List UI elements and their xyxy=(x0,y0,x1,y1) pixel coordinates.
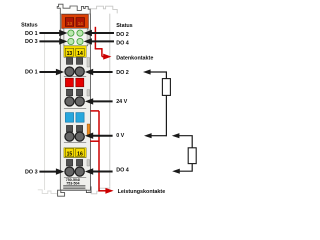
svg-text:DO 1: DO 1 xyxy=(25,70,38,76)
svg-text:16: 16 xyxy=(77,152,83,158)
external load circuit xyxy=(150,72,192,171)
svg-text:DO 4: DO 4 xyxy=(116,167,129,173)
svg-text:Status: Status xyxy=(21,22,37,28)
side hinge details on right strip xyxy=(87,30,90,45)
arrow DO4 wire xyxy=(92,171,112,173)
svg-text:DO 4: DO 4 xyxy=(116,41,129,47)
terminal number plate 16 (yellow) xyxy=(76,148,84,156)
module bottom edge xyxy=(61,186,91,192)
arrow DO3 wire xyxy=(39,171,57,173)
black label arrows, right side xyxy=(91,33,114,172)
svg-text:Datenkontakte: Datenkontakte xyxy=(116,55,153,61)
arrow DO4 status LED xyxy=(91,40,114,42)
ghost outline left (end plate edge) xyxy=(44,33,46,191)
arrow 24V wire xyxy=(92,100,112,102)
release latch (orange) xyxy=(87,124,90,136)
wire entry DO2 (circle) xyxy=(75,67,84,76)
clamp slot squares level 2 xyxy=(66,89,72,96)
load resistor R1 xyxy=(162,79,170,96)
black label arrows, left side xyxy=(39,33,60,172)
svg-text:14: 14 xyxy=(78,21,84,26)
status LED DO4 (green) xyxy=(77,38,83,44)
status LED DO1 (green) xyxy=(68,30,74,36)
arrow DO2 wire xyxy=(92,71,112,73)
wire DO2 to R1 xyxy=(150,72,167,79)
svg-text:13: 13 xyxy=(67,51,73,57)
section divider lines xyxy=(64,56,86,58)
ghost outline of adjacent module (bottom foot) xyxy=(89,187,110,194)
red arrowhead Leistungskontakte xyxy=(105,188,113,194)
red marker: Leistungskontakte pointer xyxy=(90,111,106,191)
wire entry 24V (circle) xyxy=(65,97,74,106)
svg-text:DO 3: DO 3 xyxy=(25,39,38,45)
terminal number plate 13 (crimson) xyxy=(65,18,74,27)
status LED DO2 (green) xyxy=(77,30,83,36)
arrowhead DO1 wire xyxy=(56,69,64,75)
svg-text:DO 2: DO 2 xyxy=(116,70,129,76)
LED panel xyxy=(64,28,88,46)
wire R1 to 0V xyxy=(165,95,167,136)
arrowhead DO1 status LED xyxy=(59,30,67,36)
arrowhead DO2 branch xyxy=(143,69,151,74)
status LED DO3 (green) xyxy=(68,38,74,44)
svg-text:0 V: 0 V xyxy=(116,133,124,139)
terminal number plate 13 (yellow) xyxy=(65,48,73,56)
arrowhead 0V branch a xyxy=(144,133,152,138)
wire R2 to DO4 xyxy=(179,164,192,172)
arrow DO2 status LED xyxy=(91,32,114,34)
svg-text:24 V: 24 V xyxy=(116,99,127,105)
svg-text:Leistungskontakte: Leistungskontakte xyxy=(118,189,166,195)
terminal number plate 14 (crimson) xyxy=(76,18,85,27)
wire entry DO1 (circle) xyxy=(65,67,74,76)
arrowhead 24V wire xyxy=(85,98,93,104)
arrowhead DO2 wire xyxy=(85,69,93,75)
clamp slot squares level 3 xyxy=(66,125,72,132)
terminal label strip (yellow) 15/16 xyxy=(64,148,86,158)
wire entry 0V (circle) xyxy=(65,132,74,141)
approval marks hatch block xyxy=(63,185,85,188)
wire entry 0V b (circle) xyxy=(75,132,84,141)
coding plates (red) level 2 xyxy=(65,78,73,87)
svg-text:14: 14 xyxy=(77,51,83,57)
clamp slot squares level 1 xyxy=(66,58,72,65)
arrowhead 0V branch b xyxy=(172,133,180,138)
ghost outline left (bottom rail foot) xyxy=(38,190,57,194)
terminal label strip (yellow) 13/14 xyxy=(64,46,86,57)
arrow DO1 status LED xyxy=(39,32,60,34)
arrow DO1 wire xyxy=(39,71,57,73)
terminal number plate 15 (yellow) xyxy=(65,148,73,156)
module bottom profile (left foot) xyxy=(58,190,65,196)
terminal number plate 14 (yellow) xyxy=(76,48,84,56)
arrowhead DO4 wire xyxy=(85,168,93,174)
svg-text:753-504: 753-504 xyxy=(66,181,79,185)
svg-text:DO 2: DO 2 xyxy=(116,32,129,38)
arrowhead DO4 status LED xyxy=(84,38,92,44)
svg-text:DO 1: DO 1 xyxy=(25,31,38,37)
svg-text:Status: Status xyxy=(116,23,132,29)
clamp slot squares level 4 xyxy=(66,159,72,166)
svg-text:13: 13 xyxy=(67,21,73,26)
wire entry DO3 (circle) xyxy=(65,167,74,176)
arrow 0V wire xyxy=(92,135,112,137)
wire 0V to R2 xyxy=(179,136,193,148)
module housing body U1 (750-504) xyxy=(60,14,90,190)
svg-text:DO 3: DO 3 xyxy=(25,169,38,175)
arrowhead DO3 wire xyxy=(56,168,64,174)
wire entry DO4 (circle) xyxy=(75,167,84,176)
arrowhead 0V wire xyxy=(85,133,93,139)
arrowhead DO4 branch xyxy=(172,169,180,174)
wire entry 24V b (circle) xyxy=(75,97,84,106)
marking block (orange) at module top xyxy=(62,15,89,29)
ghost outline of adjacent module (right edge) xyxy=(109,14,111,187)
module top mounting profile xyxy=(57,4,90,14)
wire 0V node xyxy=(151,135,167,137)
ghost outline of adjacent module (top profile) xyxy=(90,6,117,13)
red marker: Datenkontakte pointer xyxy=(95,27,105,57)
red arrowhead Datenkontakte xyxy=(103,54,111,60)
arrowhead DO3 status LED xyxy=(59,38,67,44)
svg-text:15: 15 xyxy=(67,152,73,158)
load resistor R2 xyxy=(188,148,196,164)
arrow DO3 status LED xyxy=(39,40,60,42)
coding plates (blue) level 3 xyxy=(65,113,73,123)
arrowhead DO2 status LED xyxy=(84,30,92,36)
